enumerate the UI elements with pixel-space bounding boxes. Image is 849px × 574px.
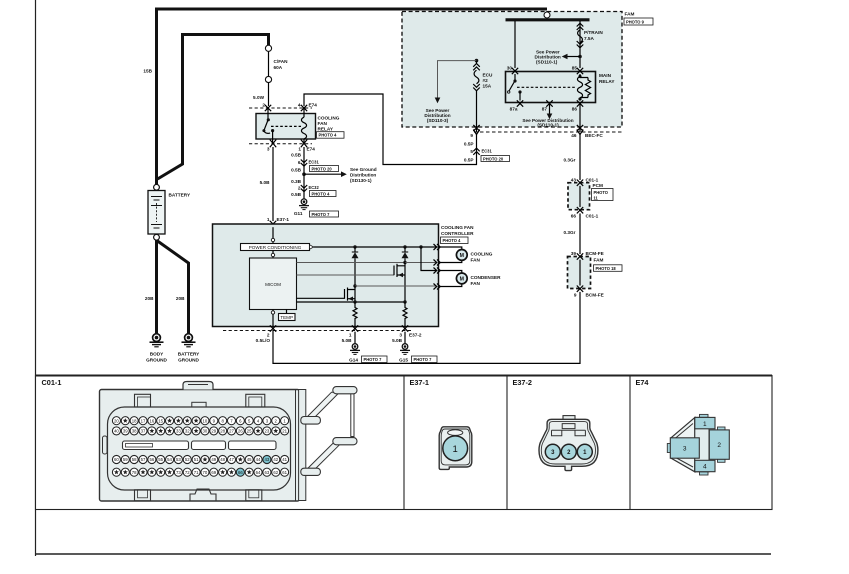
svg-text:G11: G11 [294,211,303,216]
busbar [506,18,590,21]
svg-text:5: 5 [470,149,473,154]
fan pin chevron 4 [434,284,441,290]
label 9 BCM-FE [574,293,604,298]
pin 66 X [577,207,583,213]
ground G14 [349,332,387,363]
svg-text:PHOTO 7: PHOTO 7 [414,357,433,362]
svg-text:49: 49 [211,457,216,462]
svg-text:FAN: FAN [318,121,328,126]
svg-text:E74: E74 [309,103,318,108]
node ECU fuse top [475,59,479,63]
relay K1 switch [262,108,301,144]
svg-text:43: 43 [265,457,270,462]
pin 1 X [301,140,307,148]
svg-text:RELAY: RELAY [599,79,615,84]
svg-text:54: 54 [167,457,172,462]
svg-text:CONDENSER: CONDENSER [471,275,502,280]
svg-text:PHOTO 18: PHOTO 18 [596,266,617,271]
wire to SD110-3 arrow [424,61,476,123]
svg-text:71: 71 [194,470,199,475]
svg-text:47: 47 [229,457,234,462]
top rail [314,245,438,248]
wire BCM-FE down and across to controller pin 2 [273,292,580,364]
label 43 C01-1 [571,178,599,183]
svg-text:38: 38 [132,428,137,433]
svg-text:16: 16 [149,418,154,423]
pin 1 E37-2 X [352,325,358,331]
svg-text:15A: 15A [483,84,492,89]
ground G15 [399,332,437,363]
svg-text:87: 87 [542,107,548,112]
svg-text:BCM-FE: BCM-FE [586,293,604,298]
cell title E37-1 [410,378,429,387]
svg-text:0.5B: 0.5B [291,192,302,197]
pin 87 and SD110-1 arrow [522,100,573,127]
svg-text:52: 52 [185,457,190,462]
pin 85 [572,66,583,75]
svg-text:26: 26 [238,428,243,433]
wire condenser feed [421,247,436,271]
svg-text:86: 86 [572,107,578,112]
pin 3 E37-2 X [402,325,408,331]
cell title E37-2 [513,378,532,387]
fan pin chevron 1 [434,244,441,250]
svg-text:PHOTO 20: PHOTO 20 [312,166,333,171]
label 15B [143,69,152,74]
power conditioning block [241,244,314,251]
connector C01-1 lever [299,387,357,501]
svg-text:FAM: FAM [594,258,604,263]
pin 1 E37-1 X [270,221,276,227]
svg-text:0.5B: 0.5B [291,153,302,158]
svg-text:1: 1 [349,333,352,338]
svg-text:3: 3 [683,446,687,453]
main relay U1 [506,72,616,103]
svg-text:51: 51 [194,457,199,462]
cooling fan controller box [213,224,475,327]
pin 3 X [270,140,276,148]
svg-text:5.0W: 5.0W [253,95,265,100]
bottom rail [297,300,407,303]
svg-text:G14: G14 [349,358,358,363]
svg-text:2: 2 [298,186,301,191]
svg-text:COOLING FAN: COOLING FAN [441,225,474,230]
label 1 E37-1 [267,217,290,222]
svg-text:53: 53 [176,457,181,462]
svg-text:33: 33 [176,428,181,433]
svg-text:(SD110-3): (SD110-3) [427,118,449,123]
svg-text:0.3Gr: 0.3Gr [564,158,576,163]
svg-text:70: 70 [203,470,208,475]
svg-text:57: 57 [141,457,146,462]
svg-text:1: 1 [453,444,458,455]
svg-text:E37-2: E37-2 [409,333,422,338]
svg-text:MAIN: MAIN [599,73,612,78]
wire ECU fuse to pin 9 [476,91,478,132]
svg-text:42: 42 [273,457,278,462]
main relay switch [508,74,577,101]
svg-text:PHOTO: PHOTO [594,190,609,195]
FAM box 2 [568,257,623,289]
svg-text:18: 18 [132,418,137,423]
svg-text:59: 59 [123,457,128,462]
ground G11 [294,199,339,217]
svg-text:56: 56 [149,457,154,462]
svg-text:BCM-FE: BCM-FE [586,251,604,256]
mosfet Q1 lower [297,286,356,302]
svg-text:27: 27 [229,428,234,433]
pin 86 [572,100,583,132]
fuse C/FAN 60A [265,45,288,82]
svg-text:44: 44 [256,457,261,462]
svg-text:64: 64 [256,470,261,475]
svg-text:45: 45 [247,457,252,462]
svg-text:GROUND: GROUND [178,357,199,362]
svg-text:PHOTO 9: PHOTO 9 [626,20,645,25]
wire busbar to pin30 [514,21,516,68]
svg-text:E74: E74 [636,378,650,387]
svg-text:39: 39 [571,251,577,256]
svg-text:55: 55 [158,457,163,462]
svg-text:1: 1 [703,421,707,428]
svg-text:BEC-FC: BEC-FC [585,133,603,138]
svg-text:RELAY: RELAY [318,127,334,132]
svg-text:C01-1: C01-1 [586,214,599,219]
fuse P/TRAIN 7.5A [577,23,604,48]
cooling fan relay K1 [256,114,344,140]
wire battery ground 20B [158,241,189,334]
inline connector 6 EC31 [298,160,339,172]
svg-text:C01-1: C01-1 [586,178,599,183]
node see ground distribution [302,167,377,183]
E74 connector line top [249,103,317,109]
connector E74 drawing [667,414,729,475]
svg-text:C/FAN: C/FAN [274,59,289,64]
connector E37-1 drawing [439,427,472,470]
svg-text:48: 48 [220,457,225,462]
cooling fan motor M1 [440,247,493,263]
svg-text:EC31: EC31 [309,160,320,165]
svg-text:72: 72 [185,470,190,475]
svg-text:39: 39 [123,428,128,433]
svg-text:FAM: FAM [625,12,635,17]
pin 87a [510,100,524,111]
svg-text:E74: E74 [307,147,316,152]
label PHOTO 20 right of connector 5 [481,156,510,162]
svg-text:87a: 87a [510,107,518,112]
svg-text:60A: 60A [274,65,283,70]
svg-text:(SD110-1): (SD110-1) [536,60,558,65]
wire relay pin1 to G11 [291,147,304,199]
svg-text:3: 3 [267,147,270,152]
wire battery to fuse riser [158,33,271,179]
svg-text:PHOTO 4: PHOTO 4 [319,133,338,138]
svg-text:15: 15 [158,418,163,423]
svg-text:58: 58 [132,457,137,462]
diode D2 [402,247,409,263]
cell title E74 [636,378,650,387]
svg-text:PHOTO 7: PHOTO 7 [364,357,383,362]
svg-text:9: 9 [470,133,473,138]
svg-text:FAN: FAN [471,257,481,262]
PCM box [568,183,613,210]
svg-text:5.0B: 5.0B [260,180,271,185]
svg-text:C01-1: C01-1 [42,378,62,387]
pin 2 E37-2 X [270,325,276,331]
svg-text:POWER CONDITIONING: POWER CONDITIONING [249,245,302,250]
svg-text:E37-1: E37-1 [277,217,290,222]
pin 30 [507,66,518,75]
mosfet Q2 upper [297,263,406,303]
svg-text:M: M [460,253,464,259]
pin 2 X [265,105,271,111]
wire top feeder [155,8,547,11]
relay K1 coil [301,108,306,144]
svg-text:MICOM: MICOM [265,282,281,287]
E74 connector line bottom [249,144,315,152]
svg-text:11: 11 [594,196,599,201]
svg-text:4: 4 [703,464,707,471]
FAM fuse box [402,12,653,128]
svg-text:G15: G15 [399,358,408,363]
BEC-FC connector line [470,132,622,138]
svg-text:EC32: EC32 [309,185,320,190]
svg-text:0.3B: 0.3B [291,179,302,184]
svg-text:46: 46 [571,133,577,138]
svg-text:ECU: ECU [483,73,494,78]
micom block [250,258,297,310]
svg-text:21: 21 [282,428,287,433]
fuse ECU #2 15A [473,61,493,91]
svg-text:6: 6 [298,160,301,165]
svg-text:M: M [460,277,464,283]
svg-text:(SD110-1): (SD110-1) [537,123,559,128]
inline connector 5 [473,148,479,155]
svg-text:Distribution: Distribution [350,173,376,178]
svg-text:4: 4 [298,103,301,108]
svg-text:0.5P: 0.5P [464,142,474,147]
pin 43 X [577,180,583,186]
main relay coil [577,74,590,101]
svg-text:P/TRAIN: P/TRAIN [584,30,603,35]
svg-text:60: 60 [114,457,119,462]
wire pin9 0.5P to relay pin4 [304,94,492,165]
svg-text:E37-1: E37-1 [410,378,429,387]
pin 46 X [577,125,583,135]
wire pin1 to power conditioning [271,227,274,243]
svg-text:62: 62 [273,470,278,475]
battery BT1 [148,184,191,240]
svg-text:73: 73 [176,470,181,475]
wire 15B riser [155,9,158,184]
svg-text:29: 29 [211,428,216,433]
wire micom to pin2 [271,310,274,327]
svg-text:FAN: FAN [471,281,481,286]
cell title C01-1 [42,378,62,387]
svg-text:32: 32 [185,428,190,433]
svg-text:PCM: PCM [593,183,604,188]
svg-text:66: 66 [238,470,243,475]
svg-text:BATTERY: BATTERY [178,352,200,357]
svg-text:30: 30 [203,428,208,433]
svg-text:TEMP: TEMP [280,315,293,320]
resistor R1 [353,302,357,327]
svg-text:66: 66 [571,214,577,219]
pin 39 X [577,253,583,259]
wire 0.3Gr PCM to BCM-FE [564,213,581,254]
ground G body [146,334,167,363]
temp block [279,310,296,321]
wire drain node to fan pin 2 [405,262,436,264]
svg-text:30: 30 [507,66,513,71]
label 39 BCM-FE [571,251,604,256]
wire 5.0W [253,83,268,107]
fan pin chevron 3 [434,268,441,274]
svg-text:PHOTO 7: PHOTO 7 [312,212,331,217]
svg-text:0.5P: 0.5P [464,158,474,163]
pin 9 X [473,125,479,135]
svg-text:85: 85 [572,66,578,71]
svg-text:37: 37 [141,428,146,433]
wire micom to drain node [297,261,407,264]
svg-text:9: 9 [574,293,577,298]
pin 4 X [301,105,307,111]
svg-text:BODY: BODY [150,352,164,357]
svg-text:0.5L/O: 0.5L/O [256,338,271,343]
label 66 C01-1 [571,214,599,219]
see power distribution SD110-1 upper [535,50,582,65]
svg-text:2: 2 [717,442,721,449]
E37-2 connector line [223,331,422,344]
resistor R2 [403,302,407,327]
svg-text:COOLING: COOLING [318,115,340,120]
svg-text:0.3Gr: 0.3Gr [564,230,576,235]
svg-text:2: 2 [267,333,270,338]
svg-text:15B: 15B [143,69,152,74]
svg-text:20B: 20B [176,296,185,301]
wire busbar to P/TRAIN [579,21,581,68]
svg-text:PHOTO 20: PHOTO 20 [483,156,504,161]
wire node to fan pin 4 [353,284,436,287]
svg-text:EC31: EC31 [482,149,493,154]
connector E37-2 drawing [539,416,598,471]
condenser fan motor M2 [440,271,501,287]
ground G battery [178,334,200,363]
diode D1 [352,247,359,286]
svg-text:69: 69 [211,470,216,475]
svg-text:43: 43 [571,178,577,183]
svg-text:41: 41 [282,457,287,462]
svg-text:COOLING: COOLING [471,252,493,257]
connector table frame [35,376,772,510]
svg-text:25: 25 [247,428,252,433]
wire 0.3Gr BEC-FC to PCM [564,134,581,180]
svg-text:CONTROLLER: CONTROLLER [441,231,474,236]
svg-text:20: 20 [114,418,119,423]
svg-text:17: 17 [141,418,146,423]
svg-text:23: 23 [265,428,270,433]
connector C01-1 pins [112,417,288,477]
svg-text:78: 78 [132,470,137,475]
wire body ground 20B [145,240,157,334]
svg-text:See Ground: See Ground [350,167,377,172]
svg-text:5.0B: 5.0B [342,338,353,343]
svg-text:61: 61 [282,470,287,475]
connector C01-1 body [100,382,300,502]
inline connector 2 EC32 [298,185,336,197]
svg-text:(SD130-1): (SD130-1) [350,178,372,183]
svg-text:BATTERY: BATTERY [169,193,191,198]
svg-text:40: 40 [114,428,119,433]
fan pin chevron 2 [434,260,441,266]
svg-text:E37-2: E37-2 [513,378,532,387]
svg-text:5.0B: 5.0B [392,338,403,343]
svg-text:10: 10 [203,418,208,423]
page bottom rule [35,553,771,555]
pin 9 BCM-FE X [577,286,583,292]
svg-text:#2: #2 [483,78,489,83]
svg-text:20B: 20B [145,296,154,301]
connector circle on feeder [544,11,550,20]
svg-text:0.5B: 0.5B [291,168,302,173]
wire 5.0B relay to controller [260,147,273,221]
svg-text:PHOTO 4: PHOTO 4 [443,238,462,243]
svg-text:3: 3 [399,333,402,338]
svg-text:28: 28 [220,428,225,433]
svg-text:GROUND: GROUND [146,357,167,362]
svg-text:7.5A: 7.5A [584,36,595,41]
svg-text:63: 63 [265,470,270,475]
wire power conditioning to micom [271,251,274,259]
svg-text:PHOTO 4: PHOTO 4 [312,191,331,196]
page left border [35,0,37,556]
